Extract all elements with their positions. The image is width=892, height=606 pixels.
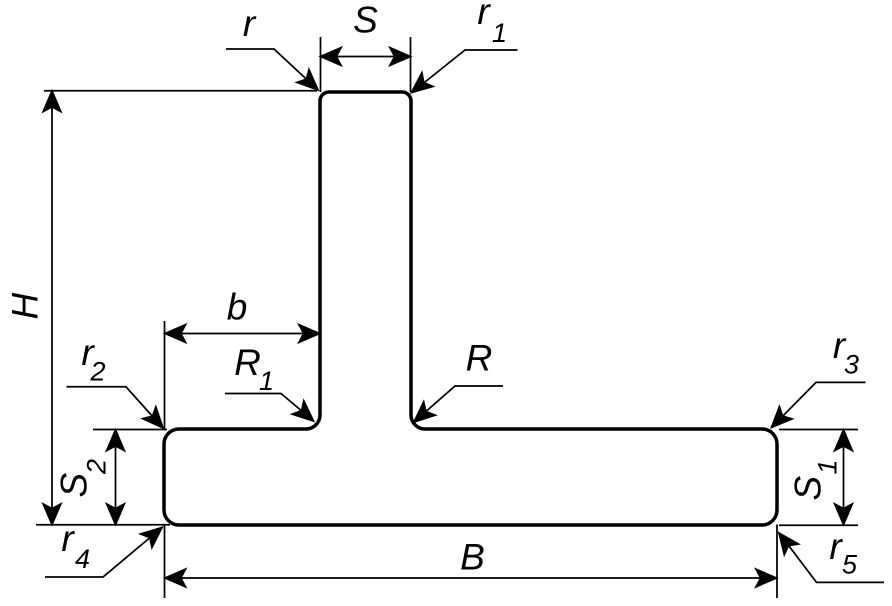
leader r3	[765, 382, 865, 433]
svg-text:r: r	[243, 3, 257, 44]
leader r4	[45, 521, 168, 577]
leader R1	[225, 394, 319, 428]
T-profile outline	[164, 92, 777, 525]
label r5	[829, 526, 858, 580]
extension line B right	[776, 525, 778, 599]
leader r2	[67, 387, 170, 434]
svg-text:4: 4	[75, 544, 90, 574]
svg-text:S: S	[788, 476, 829, 501]
extension line b left	[164, 321, 166, 429]
label r3	[833, 325, 859, 380]
svg-text:R: R	[234, 342, 261, 383]
svg-text:S: S	[353, 0, 378, 41]
leader r	[226, 49, 324, 96]
extension line S left	[320, 37, 322, 92]
extension line S right	[410, 37, 412, 92]
dimension S1	[779, 430, 858, 526]
svg-text:B: B	[460, 537, 485, 578]
extension line S1 top	[779, 429, 858, 431]
extension line S2 top	[93, 429, 167, 431]
svg-text:S: S	[54, 473, 95, 498]
svg-text:r: r	[477, 0, 491, 32]
dimension line S2	[115, 431, 117, 525]
svg-text:2: 2	[89, 357, 105, 387]
dimension S	[321, 37, 411, 92]
dimension line S1	[843, 431, 845, 525]
svg-text:R: R	[466, 338, 493, 379]
svg-text:r: r	[61, 518, 75, 559]
dimension S2	[93, 430, 167, 525]
label R1	[234, 342, 274, 396]
svg-text:5: 5	[842, 550, 858, 580]
label r4	[61, 518, 90, 574]
leader r5	[772, 528, 884, 583]
dimension line B	[166, 577, 776, 579]
extension line H bottom	[36, 524, 170, 526]
svg-text:1: 1	[813, 459, 843, 474]
dimension B	[165, 525, 778, 599]
leader r1	[406, 50, 518, 99]
svg-text:1: 1	[492, 18, 507, 48]
svg-text:b: b	[227, 287, 248, 328]
svg-text:H: H	[5, 293, 46, 320]
dimension b	[165, 321, 320, 429]
dimension line S	[321, 56, 410, 58]
svg-text:3: 3	[844, 350, 859, 380]
extension line S1 bottom	[779, 524, 858, 526]
extension line B left	[164, 525, 166, 599]
svg-text:2: 2	[82, 459, 112, 475]
svg-text:1: 1	[259, 366, 274, 396]
dimension line b	[166, 333, 320, 335]
leader R	[408, 386, 503, 429]
label r1	[477, 0, 507, 48]
label r2	[81, 332, 105, 387]
dimension line H	[51, 92, 53, 525]
dimension H	[36, 91, 317, 525]
extension line H top	[44, 90, 317, 92]
label S1	[788, 459, 843, 500]
label S2	[54, 459, 112, 498]
